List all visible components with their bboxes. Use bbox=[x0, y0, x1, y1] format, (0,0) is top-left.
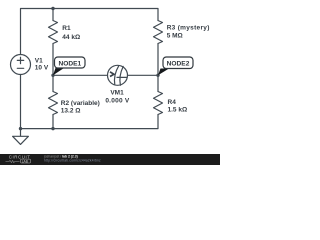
wire V1 bottom to bottom rail bbox=[20, 75, 22, 129]
svg-text:NODE2: NODE2 bbox=[167, 61, 190, 68]
wire R3 leads bbox=[157, 44, 159, 76]
svg-text:0.000 V: 0.000 V bbox=[105, 97, 130, 104]
wire R2 leads bbox=[52, 75, 54, 128]
node label NODE1 bbox=[53, 57, 85, 75]
label R3 value bbox=[167, 25, 210, 40]
wire VM1 to NODE2 bbox=[128, 74, 159, 76]
svg-text:10 V: 10 V bbox=[35, 64, 49, 71]
svg-text:44 kΩ: 44 kΩ bbox=[62, 34, 80, 41]
wire R4 top lead bbox=[157, 75, 159, 91]
junction dot node B (NODE2) bbox=[156, 74, 159, 77]
resistor R4 bbox=[154, 92, 163, 115]
svg-text:1.5 kΩ: 1.5 kΩ bbox=[168, 106, 188, 113]
svg-text:R1: R1 bbox=[62, 25, 71, 32]
svg-text:LAB: LAB bbox=[22, 159, 29, 163]
label R4 value bbox=[168, 99, 188, 114]
label V1 value bbox=[35, 57, 49, 71]
wire top horizontal bbox=[21, 9, 159, 55]
svg-text:NODE1: NODE1 bbox=[58, 60, 81, 67]
footer bar bbox=[0, 154, 220, 165]
label R2 value bbox=[61, 100, 100, 115]
svg-text:VM1: VM1 bbox=[110, 89, 124, 96]
svg-text:R4: R4 bbox=[168, 99, 177, 106]
wire R1 leads bbox=[52, 9, 54, 76]
label R1 value bbox=[62, 25, 80, 41]
svg-text:5 MΩ: 5 MΩ bbox=[167, 33, 183, 40]
wire bottom horizontal rail bbox=[21, 115, 159, 129]
footer logo LAB bbox=[21, 159, 31, 163]
label VM1 value bbox=[105, 89, 130, 104]
voltage source V1 bbox=[11, 55, 31, 75]
ground bbox=[13, 129, 29, 145]
voltmeter VM1 bbox=[108, 65, 128, 85]
svg-text:R2 (variable): R2 (variable) bbox=[61, 100, 100, 107]
resistor R2 (variable) bbox=[49, 92, 58, 115]
svg-text:13.2 Ω: 13.2 Ω bbox=[61, 108, 81, 115]
junction dot bottom left bbox=[19, 127, 22, 130]
wire middle row NODE1 to VM1 bbox=[53, 74, 108, 76]
svg-text:R3 (mystery): R3 (mystery) bbox=[167, 25, 210, 32]
voltmeter arrow glyph bbox=[110, 72, 114, 77]
junction dot top R1 bbox=[51, 7, 54, 10]
junction dot node A (NODE1) bbox=[51, 74, 54, 77]
svg-text:joshanjost / lab 2 (2.3): joshanjost / lab 2 (2.3) bbox=[43, 154, 78, 158]
footer logo wire squiggle bbox=[6, 160, 20, 162]
svg-text:http://circuitlab.com/c/z44a2k: http://circuitlab.com/c/z44a2k4r6nz bbox=[44, 159, 101, 163]
junction dot bottom R2 bbox=[51, 127, 54, 130]
svg-text:V1: V1 bbox=[35, 57, 43, 64]
resistor R1 bbox=[49, 21, 58, 44]
resistor R3 (mystery) bbox=[154, 21, 163, 44]
node label NODE2 bbox=[158, 57, 193, 75]
